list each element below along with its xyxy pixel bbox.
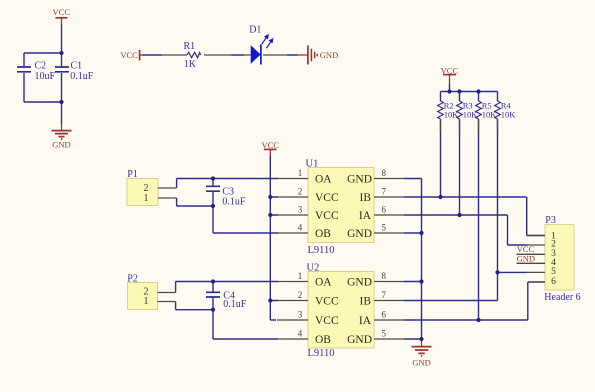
svg-text:GND: GND bbox=[347, 228, 372, 240]
svg-text:VCC: VCC bbox=[53, 7, 71, 17]
svg-text:GND: GND bbox=[320, 50, 338, 60]
svg-text:OA: OA bbox=[315, 276, 332, 288]
svg-text:GND: GND bbox=[52, 139, 70, 149]
svg-text:U1: U1 bbox=[306, 158, 319, 169]
svg-text:0.1uF: 0.1uF bbox=[70, 71, 94, 82]
svg-text:R1: R1 bbox=[184, 41, 196, 52]
svg-text:P3: P3 bbox=[545, 215, 556, 226]
svg-text:8: 8 bbox=[382, 271, 387, 281]
svg-text:GND: GND bbox=[517, 253, 535, 263]
svg-text:5: 5 bbox=[551, 267, 556, 277]
svg-text:IA: IA bbox=[359, 315, 372, 327]
svg-text:2: 2 bbox=[298, 290, 303, 300]
svg-text:6: 6 bbox=[382, 205, 387, 215]
svg-text:P2: P2 bbox=[127, 274, 138, 285]
svg-text:Header 6: Header 6 bbox=[544, 292, 580, 303]
svg-text:C1: C1 bbox=[71, 60, 83, 71]
svg-text:8: 8 bbox=[382, 168, 387, 178]
svg-text:L9110: L9110 bbox=[308, 348, 335, 359]
svg-text:1: 1 bbox=[144, 296, 149, 307]
svg-text:OA: OA bbox=[315, 173, 332, 185]
svg-text:10K: 10K bbox=[444, 109, 460, 119]
svg-text:VCC: VCC bbox=[315, 295, 339, 307]
svg-text:6: 6 bbox=[551, 277, 556, 287]
svg-text:2: 2 bbox=[298, 187, 303, 197]
svg-text:D1: D1 bbox=[249, 24, 261, 35]
svg-text:1: 1 bbox=[298, 168, 303, 178]
svg-text:OB: OB bbox=[315, 334, 331, 346]
svg-text:GND: GND bbox=[412, 357, 430, 367]
svg-text:10K: 10K bbox=[463, 109, 479, 119]
svg-text:VCC: VCC bbox=[315, 192, 339, 204]
svg-text:7: 7 bbox=[382, 187, 387, 197]
svg-text:10K: 10K bbox=[482, 109, 498, 119]
svg-text:1: 1 bbox=[144, 193, 149, 204]
svg-text:VCC: VCC bbox=[315, 315, 339, 327]
svg-text:GND: GND bbox=[347, 173, 372, 185]
svg-text:OB: OB bbox=[315, 228, 331, 240]
svg-text:VCC: VCC bbox=[120, 50, 138, 60]
svg-text:P1: P1 bbox=[127, 169, 138, 180]
svg-text:1K: 1K bbox=[184, 59, 197, 70]
svg-text:5: 5 bbox=[382, 223, 387, 233]
svg-text:VCC: VCC bbox=[315, 210, 339, 222]
svg-text:IA: IA bbox=[359, 210, 372, 222]
svg-text:5: 5 bbox=[382, 329, 387, 339]
svg-text:4: 4 bbox=[298, 223, 303, 233]
svg-text:VCC: VCC bbox=[261, 140, 279, 150]
svg-text:L9110: L9110 bbox=[308, 245, 335, 256]
svg-text:GND: GND bbox=[347, 334, 372, 346]
svg-text:VCC: VCC bbox=[441, 65, 459, 75]
svg-text:3: 3 bbox=[298, 310, 303, 320]
svg-text:0.1uF: 0.1uF bbox=[222, 197, 246, 208]
svg-text:7: 7 bbox=[382, 290, 387, 300]
svg-text:0.1uF: 0.1uF bbox=[223, 299, 247, 310]
svg-text:U2: U2 bbox=[307, 262, 320, 273]
svg-text:GND: GND bbox=[347, 276, 372, 288]
svg-text:10uF: 10uF bbox=[35, 71, 56, 82]
svg-text:6: 6 bbox=[382, 310, 387, 320]
svg-text:C2: C2 bbox=[35, 60, 47, 71]
svg-text:1: 1 bbox=[298, 271, 303, 281]
svg-text:4: 4 bbox=[298, 329, 303, 339]
svg-text:3: 3 bbox=[298, 205, 303, 215]
svg-text:IB: IB bbox=[360, 295, 372, 307]
svg-text:10K: 10K bbox=[501, 109, 517, 119]
svg-text:IB: IB bbox=[360, 192, 372, 204]
